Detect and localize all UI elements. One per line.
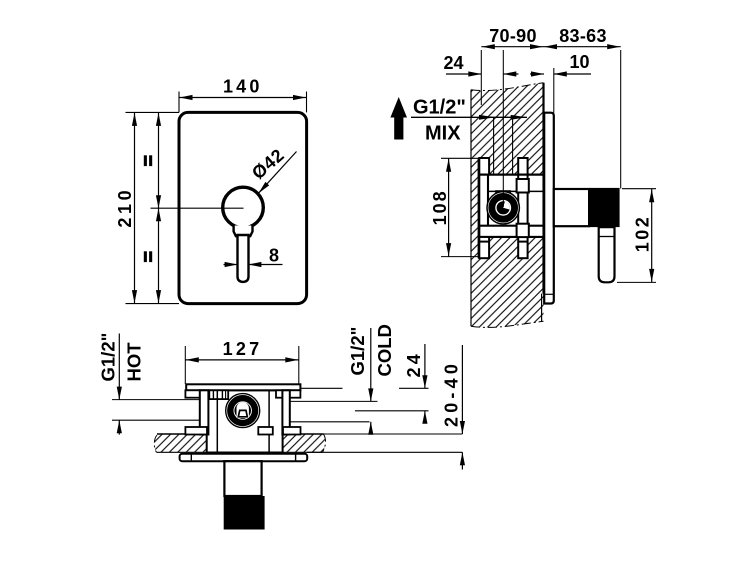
plan body inner lines bbox=[216, 390, 218, 452]
cartridge stem tab bbox=[495, 190, 511, 193]
plan right rail bbox=[282, 390, 289, 434]
COLD leader arrows bbox=[370, 328, 372, 401]
dimension 24 side arrows bbox=[446, 73, 481, 75]
dimension 108 line bbox=[448, 158, 450, 256]
svg-text:24: 24 bbox=[443, 53, 463, 73]
dimension 83-63 extension line bbox=[620, 50, 622, 189]
mounting bracket left rail bbox=[479, 158, 489, 258]
port centerline bbox=[502, 50, 504, 207]
plan MIX port inner detail bbox=[234, 402, 251, 419]
svg-text:G1/2": G1/2" bbox=[347, 327, 368, 376]
mounting bracket right rail bbox=[518, 158, 527, 258]
COLD port lines bbox=[290, 400, 378, 402]
front view handle collar bbox=[234, 226, 253, 237]
right rail upper inner tab bbox=[517, 179, 529, 193]
body top edge line bbox=[479, 174, 543, 176]
HOT leader arrows bbox=[118, 334, 120, 400]
G1/2 MIX up arrow bbox=[390, 97, 407, 118]
plan handle knob black bbox=[224, 496, 265, 530]
dimension 8 arrows bbox=[224, 264, 238, 266]
svg-text:10: 10 bbox=[569, 52, 589, 72]
dimension 10 arrows bbox=[530, 73, 544, 75]
dimension 24 plan arrows bbox=[424, 344, 426, 388]
HOT port lines bbox=[112, 399, 200, 401]
cartridge outer circle bbox=[487, 192, 519, 224]
svg-text:MIX: MIX bbox=[425, 123, 461, 145]
plan bottom tab left bbox=[185, 427, 207, 435]
plan MIX port black ring bbox=[230, 398, 255, 423]
svg-text:G1/2": G1/2" bbox=[413, 97, 466, 119]
diameter 42 leader bbox=[259, 152, 297, 194]
svg-text:140: 140 bbox=[223, 77, 263, 97]
front view handle lever stem bbox=[238, 235, 249, 282]
svg-text:24: 24 bbox=[404, 351, 424, 377]
dimension 70-90 extension line bbox=[480, 50, 482, 105]
wall break line bottom bbox=[471, 321, 544, 327]
equal mark lower bbox=[144, 251, 147, 262]
plan handle sleeve bbox=[224, 461, 261, 496]
svg-text:83-63: 83-63 bbox=[559, 26, 607, 46]
MIX port outline bbox=[493, 118, 495, 175]
wall break line top bbox=[471, 83, 544, 91]
plan body top extension line bbox=[301, 387, 343, 389]
dimension 127 line bbox=[185, 359, 298, 361]
handle knob black bbox=[589, 188, 620, 227]
dimension 210 line bbox=[134, 112, 136, 303]
dimension 210 extension lines bbox=[126, 111, 180, 113]
plan bottom tab middle bbox=[258, 427, 273, 435]
svg-text:COLD: COLD bbox=[374, 324, 395, 376]
plan wall finished face line bbox=[307, 451, 462, 453]
plan left rail bbox=[200, 390, 209, 434]
plan trim plate bbox=[180, 454, 308, 461]
svg-text:20-40: 20-40 bbox=[442, 360, 462, 427]
plan right flange tab bbox=[276, 390, 300, 397]
dimension 108 extension lines bbox=[441, 157, 480, 159]
wall edge below plate bbox=[541, 294, 543, 322]
dimension 127 extension lines bbox=[184, 346, 186, 384]
handle sleeve bbox=[554, 189, 589, 226]
plan left flange tab bbox=[185, 390, 205, 397]
cartridge inner disc bbox=[497, 201, 510, 214]
dimension 20-40 arrows bbox=[461, 345, 463, 434]
valve body bottom band bbox=[479, 226, 543, 237]
dimension 70-90 line bbox=[481, 46, 543, 48]
dimension 140 extension lines bbox=[178, 92, 180, 113]
plan bottom tab right bbox=[283, 427, 301, 435]
dimension 102 extension lines bbox=[622, 188, 656, 190]
plan body channel bbox=[207, 390, 283, 452]
equal division dimension line bbox=[158, 112, 160, 303]
svg-text:G1/2": G1/2" bbox=[98, 333, 119, 382]
trim plate side view bbox=[544, 113, 554, 304]
front view handle knob circle bbox=[223, 187, 264, 228]
plate face extension line bbox=[553, 68, 555, 113]
dimension 83-63 line bbox=[544, 46, 621, 48]
front view centerline bbox=[151, 207, 244, 209]
plan wall face line bbox=[301, 433, 462, 435]
svg-text:210: 210 bbox=[115, 187, 135, 228]
plan wall right hatched bbox=[283, 434, 326, 452]
svg-text:8: 8 bbox=[269, 246, 279, 266]
plan port centerline bbox=[355, 410, 429, 412]
front view trim plate bbox=[179, 112, 307, 303]
dimension 102 line bbox=[651, 189, 653, 283]
cartridge black ring bbox=[492, 196, 515, 219]
svg-text:127: 127 bbox=[223, 339, 263, 359]
valve body recess bbox=[488, 175, 544, 237]
plan wall left hatched bbox=[154, 434, 206, 452]
right rail lower inner tab bbox=[517, 224, 529, 237]
wall face line bbox=[542, 83, 544, 294]
svg-text:108: 108 bbox=[430, 189, 450, 225]
plan port block bbox=[209, 390, 228, 399]
dimension 140 line bbox=[179, 97, 307, 99]
svg-text:70-90: 70-90 bbox=[489, 26, 537, 46]
handle lever side view bbox=[599, 227, 615, 282]
equal mark upper bbox=[144, 155, 147, 166]
svg-text:HOT: HOT bbox=[124, 342, 145, 382]
wall section hatched bbox=[471, 83, 544, 328]
G1/2 MIX leader line bbox=[411, 116, 527, 118]
plan top bar bbox=[186, 384, 300, 390]
wall left edge bbox=[470, 90, 472, 327]
plan MIX port outer circle bbox=[226, 394, 260, 428]
svg-text:102: 102 bbox=[633, 215, 653, 253]
valve body inner line bbox=[488, 190, 544, 192]
